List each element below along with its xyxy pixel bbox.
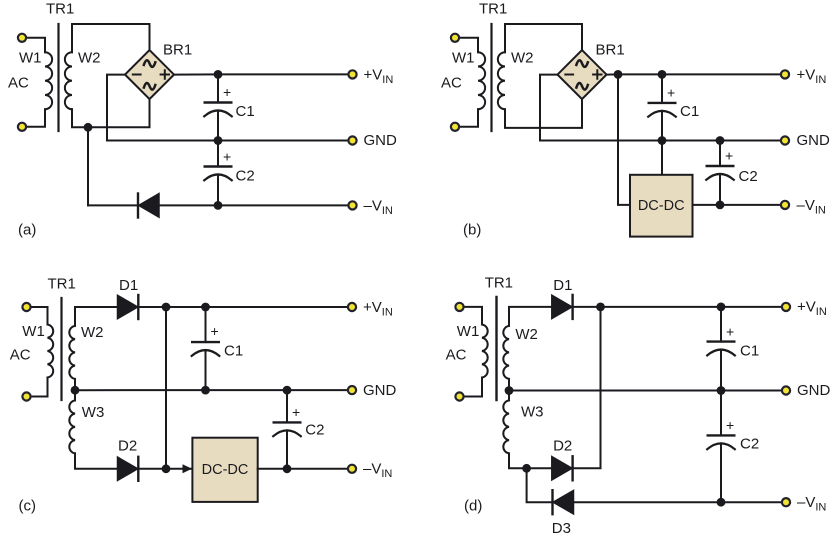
capacitor C1 bottom plate arc (c) <box>192 350 220 356</box>
capacitor C2 wire top <box>217 141 219 167</box>
wire: D2 cathode to DC-DC input (c) <box>138 468 192 470</box>
terminal AC 2 (c) <box>22 392 30 400</box>
capacitor C1 bottom plate arc (d) <box>707 350 735 356</box>
wire: W1 bottom to AC terminal 2 (d) <box>460 378 483 397</box>
wire: W2 bottom to node A <box>72 109 88 127</box>
capacitor C2 bottom plate arc (c) <box>273 430 301 436</box>
svg-text:+: + <box>292 404 300 420</box>
svg-text:C2: C2 <box>739 168 758 185</box>
svg-text:(c): (c) <box>19 498 37 515</box>
capacitor C1 top plate (d) <box>708 340 735 342</box>
svg-text:D1: D1 <box>119 277 138 294</box>
capacitor C1 wire top (b) <box>661 74 663 103</box>
winding W2 of TR1 (c) <box>69 326 75 379</box>
wire: D1 cathode to +VIN rail (d) <box>573 306 786 308</box>
svg-text:W1: W1 <box>19 50 42 67</box>
wire: + node down to DC-DC input (b) <box>618 74 630 205</box>
node dot -VIN/C2 (b) <box>716 201 725 210</box>
arrowhead into DC-DC (c) <box>183 464 193 473</box>
svg-text:TR1: TR1 <box>46 1 74 18</box>
svg-text:C1: C1 <box>236 103 255 120</box>
svg-text:AC: AC <box>8 75 29 92</box>
capacitor C2 top plate (c) <box>274 421 301 423</box>
node dot bridge + (b) <box>614 70 623 79</box>
terminal +VIN (b) <box>781 70 789 78</box>
node dot GND/C1/C2 <box>214 136 223 145</box>
node dot +VIN/C1 (d) <box>717 303 726 312</box>
diode D1 triangle (d) <box>552 295 572 318</box>
wire: node B down to D3 row (d) <box>527 468 553 502</box>
winding W3 of TR1 (c) <box>69 400 75 453</box>
node dot GND/C2 (b) <box>716 136 725 145</box>
svg-text:GND: GND <box>797 382 831 399</box>
terminal AC 1 (d) <box>455 303 463 311</box>
wire: GND junction to W3 top (d) <box>508 391 510 401</box>
BR1 minus sign (b) <box>565 74 573 76</box>
BR1 bottom ac tilde (b) <box>576 82 588 90</box>
wire: D2 cathode up to +VIN node (d) <box>573 307 601 468</box>
diode D2 triangle (d) <box>552 457 572 480</box>
transformer TR1 core (b) <box>490 24 492 131</box>
wire: W2 top to D1 anode (c) <box>75 307 118 326</box>
wire: W2 bottom to bridge bottom vertex (b) <box>505 99 582 128</box>
terminal +VIN (c) <box>348 303 356 311</box>
capacitor C1 top plate <box>205 101 232 103</box>
capacitor C2 wire bottom (d) <box>720 443 722 502</box>
wire: AC terminal 1 to W1 top <box>22 38 45 52</box>
wire: W2 top to bridge top vertex (b) <box>505 24 582 52</box>
svg-text:W2: W2 <box>511 50 534 67</box>
svg-text:GND: GND <box>364 132 398 149</box>
capacitor C2 wire top (c) <box>286 390 288 422</box>
svg-text:D2: D2 <box>118 438 137 455</box>
wire: W2 bottom to GND junction (c) <box>74 379 76 390</box>
terminal GND (c) <box>348 386 356 394</box>
wire: +VIN node down to -VIN node (c) <box>165 307 167 469</box>
terminal AC 2 (d) <box>455 392 463 400</box>
capacitor C1 wire bottom <box>217 111 219 141</box>
transformer TR1 core <box>57 24 59 131</box>
svg-text:D3: D3 <box>552 520 571 537</box>
wire: AC terminal 1 to W1 top (b) <box>455 38 478 52</box>
diode D3 triangle (d) <box>553 490 573 514</box>
svg-text:+: + <box>211 323 219 339</box>
transformer TR1 core (c) <box>60 298 62 400</box>
node dot W2/W3 GND junction (d) <box>505 386 514 395</box>
svg-text:C1: C1 <box>680 103 699 120</box>
svg-text:(a): (a) <box>18 222 36 239</box>
node dot A (W2 bottom junction) <box>84 123 93 132</box>
diode D3 cathode bar (d) <box>551 490 553 514</box>
svg-text:+: + <box>223 84 231 100</box>
node dot W2/W3 GND junction (c) <box>71 386 80 395</box>
wire: D3 anode to -VIN rail (d) <box>574 501 787 503</box>
node dot B W3/D2/D3 (d) <box>522 464 531 473</box>
terminal GND (d) <box>782 386 790 394</box>
terminal AC 1 (b) <box>451 34 459 42</box>
svg-text:AC: AC <box>446 347 467 364</box>
wire: DC-DC output to -VIN rail (b) <box>693 204 786 206</box>
wire: -VIN rail left segment <box>88 204 138 206</box>
wire: W3 bottom to node B (d) <box>509 453 527 468</box>
bridge rectifier BR1 body (b) <box>558 50 607 99</box>
capacitor C1 bottom plate arc <box>204 110 232 116</box>
wire: node A to bridge bottom vertex branch <box>88 99 150 127</box>
svg-text:TR1: TR1 <box>485 275 513 292</box>
winding W1 of TR1 <box>45 52 52 109</box>
wire: AC terminal 1 to W1 top (c) <box>27 307 48 325</box>
wire: bridge + output to +VIN rail <box>174 73 218 75</box>
diode D (a) cathode bar <box>137 194 139 218</box>
capacitor C2 bottom plate arc <box>204 174 232 180</box>
winding W2 of TR1 (b) <box>498 52 505 109</box>
svg-text:W3: W3 <box>82 404 105 421</box>
winding W1 of TR1 (d) <box>482 325 488 378</box>
svg-text:GND: GND <box>797 132 831 149</box>
svg-text:W2: W2 <box>78 50 101 67</box>
capacitor C1 top plate (b) <box>649 102 676 104</box>
svg-text:C2: C2 <box>236 168 255 185</box>
capacitor C1 wire bottom (c) <box>205 350 207 390</box>
capacitor C2 wire bottom (b) <box>719 174 721 205</box>
diode D1 triangle (c) <box>118 295 138 318</box>
terminal AC 1 (c) <box>22 303 30 311</box>
wire: GND junction to W3 top (c) <box>74 390 76 400</box>
diode D2 cathode bar (d) <box>571 456 573 480</box>
svg-text:W2: W2 <box>81 324 104 341</box>
node dot GND/C2 (c) <box>283 386 292 395</box>
node dot -VIN/C2 (d) <box>717 498 726 507</box>
wire: W3 bottom to D2 anode (c) <box>75 453 118 468</box>
svg-text:AC: AC <box>10 347 31 364</box>
capacitor C2 top plate (b) <box>707 165 734 167</box>
svg-text:GND: GND <box>363 382 397 399</box>
terminal GND (b) <box>781 136 789 144</box>
svg-text:BR1: BR1 <box>596 42 625 59</box>
BR1 top ac tilde (b) <box>576 60 588 68</box>
svg-text:AC: AC <box>441 75 462 92</box>
capacitor C2 wire top (d) <box>720 391 722 436</box>
svg-text:+: + <box>726 323 734 339</box>
svg-text:D2: D2 <box>553 438 572 455</box>
svg-text:W1: W1 <box>457 323 480 340</box>
DC-DC converter box (b) <box>630 175 693 237</box>
terminal GND <box>348 136 356 144</box>
wire: +VIN rail <box>218 73 353 75</box>
wire: W2 top to D1 anode (d) <box>509 307 552 326</box>
wire: AC terminal 1 to W1 top (d) <box>460 307 483 325</box>
wire: W1 bottom to AC terminal 2 (b) <box>455 109 478 127</box>
wire: DC-DC output to -VIN rail (c) <box>258 468 352 470</box>
capacitor C2 bottom plate arc (b) <box>706 174 734 180</box>
node dot +VIN/C1 (b) <box>658 70 667 79</box>
capacitor C2 bottom plate arc (d) <box>707 443 735 449</box>
svg-text:D1: D1 <box>553 277 572 294</box>
svg-text:BR1: BR1 <box>163 42 192 59</box>
wire: bridge + output to +VIN rail (b) <box>607 73 619 75</box>
svg-text:TR1: TR1 <box>479 1 507 18</box>
wire: GND rail <box>218 140 353 142</box>
wire: W2 top to bridge AC input (top vertex) <box>72 24 150 52</box>
svg-text:+: + <box>725 148 733 164</box>
capacitor C2 top plate <box>205 165 232 167</box>
wire: D1 cathode to +VIN rail (c) <box>138 306 352 308</box>
diode D (a) triangle <box>139 194 159 218</box>
bridge rectifier BR1 body <box>125 50 174 99</box>
wire: +VIN rail (b) <box>618 73 785 75</box>
wire: node B to D2 anode (d) <box>527 467 552 469</box>
wire: GND rail (c) <box>75 389 352 391</box>
wire: bridge - output down to GND rail (b) <box>540 75 662 141</box>
node dot +VIN/C1 (c) <box>201 303 210 312</box>
diode D2 cathode bar (c) <box>137 457 139 481</box>
svg-text:+: + <box>223 149 231 165</box>
wire: -VIN rail right segment <box>159 204 353 206</box>
capacitor C2 wire top (b) <box>719 141 721 167</box>
capacitor C2 wire bottom <box>217 175 219 206</box>
wire: W1 bottom to AC terminal 2 <box>22 109 45 127</box>
svg-text:C1: C1 <box>740 343 759 360</box>
DC-DC converter box (c) <box>192 438 257 502</box>
node dot -VIN/C2 (c) <box>283 464 292 473</box>
diode D1 cathode bar (c) <box>137 295 139 319</box>
capacitor C1 wire top (c) <box>205 307 207 342</box>
terminal -VIN <box>348 201 356 209</box>
wire: GND rail (d) <box>509 390 786 392</box>
capacitor C1 wire bottom (b) <box>661 111 663 141</box>
svg-text:DC-DC: DC-DC <box>202 462 249 478</box>
node dot +VIN/C1 <box>214 70 223 79</box>
node dot -VIN/C2 <box>214 201 223 210</box>
svg-text:(b): (b) <box>463 222 481 239</box>
diode D2 triangle (c) <box>118 457 138 480</box>
winding W1 of TR1 (b) <box>478 52 485 109</box>
terminal -VIN (b) <box>781 201 789 209</box>
terminal AC 2 (b) <box>451 123 459 131</box>
svg-text:(d): (d) <box>464 498 482 515</box>
svg-text:+: + <box>726 417 734 433</box>
node dot GND/C1/C2 (d) <box>717 386 726 395</box>
BR1 minus sign <box>133 74 141 76</box>
capacitor C1 top plate (c) <box>192 341 219 343</box>
winding W1 of TR1 (c) <box>48 325 54 378</box>
svg-text:W1: W1 <box>452 50 475 67</box>
BR1 top ac tilde <box>144 60 156 68</box>
winding W2 of TR1 (d) <box>503 326 509 379</box>
svg-text:+: + <box>667 85 675 101</box>
wire: GND node down to DC-DC top (b) <box>661 141 663 175</box>
terminal AC 2 <box>18 123 26 131</box>
terminal +VIN (d) <box>782 303 790 311</box>
svg-text:TR1: TR1 <box>48 276 76 293</box>
transformer TR1 core (d) <box>495 297 497 400</box>
node dot GND/C1 (c) <box>201 386 210 395</box>
node dot D1/+VIN branch (c) <box>162 303 171 312</box>
terminal AC 1 <box>18 34 26 42</box>
capacitor C2 top plate (d) <box>708 434 735 436</box>
node dot D2/DC-DC input (c) <box>162 464 171 473</box>
capacitor C1 wire top (d) <box>720 307 722 342</box>
capacitor C1 wire top <box>217 74 219 102</box>
wire: bridge - output to GND rail <box>107 75 218 141</box>
svg-text:DC-DC: DC-DC <box>638 198 685 214</box>
svg-text:C2: C2 <box>305 422 324 439</box>
svg-text:W2: W2 <box>515 326 538 343</box>
terminal -VIN (d) <box>782 498 790 506</box>
svg-text:C1: C1 <box>224 343 243 360</box>
svg-text:W3: W3 <box>521 404 544 421</box>
BR1 plus sign (b) <box>593 70 601 78</box>
BR1 plus sign <box>161 70 169 78</box>
capacitor C1 bottom plate arc (b) <box>648 111 676 117</box>
wire: W1 bottom to AC terminal 2 (c) <box>27 378 48 397</box>
terminal +VIN <box>348 70 356 78</box>
node dot D1/D2 +VIN junction (d) <box>596 303 605 312</box>
wire: node A down to -VIN rail <box>87 127 89 205</box>
capacitor C2 wire bottom (c) <box>286 430 288 468</box>
svg-text:C2: C2 <box>740 436 759 453</box>
svg-text:W1: W1 <box>22 323 45 340</box>
diode D1 cathode bar (d) <box>571 295 573 319</box>
wire: W2 bottom to GND junction (d) <box>508 379 510 391</box>
terminal -VIN (c) <box>348 465 356 473</box>
capacitor C1 wire bottom (d) <box>720 350 722 391</box>
winding W2 of TR1 <box>65 52 72 109</box>
winding W3 of TR1 (d) <box>503 400 509 453</box>
BR1 bottom ac tilde <box>144 82 156 90</box>
wire: GND rail (b) <box>662 140 785 142</box>
node dot GND/C1 (b) <box>658 136 667 145</box>
